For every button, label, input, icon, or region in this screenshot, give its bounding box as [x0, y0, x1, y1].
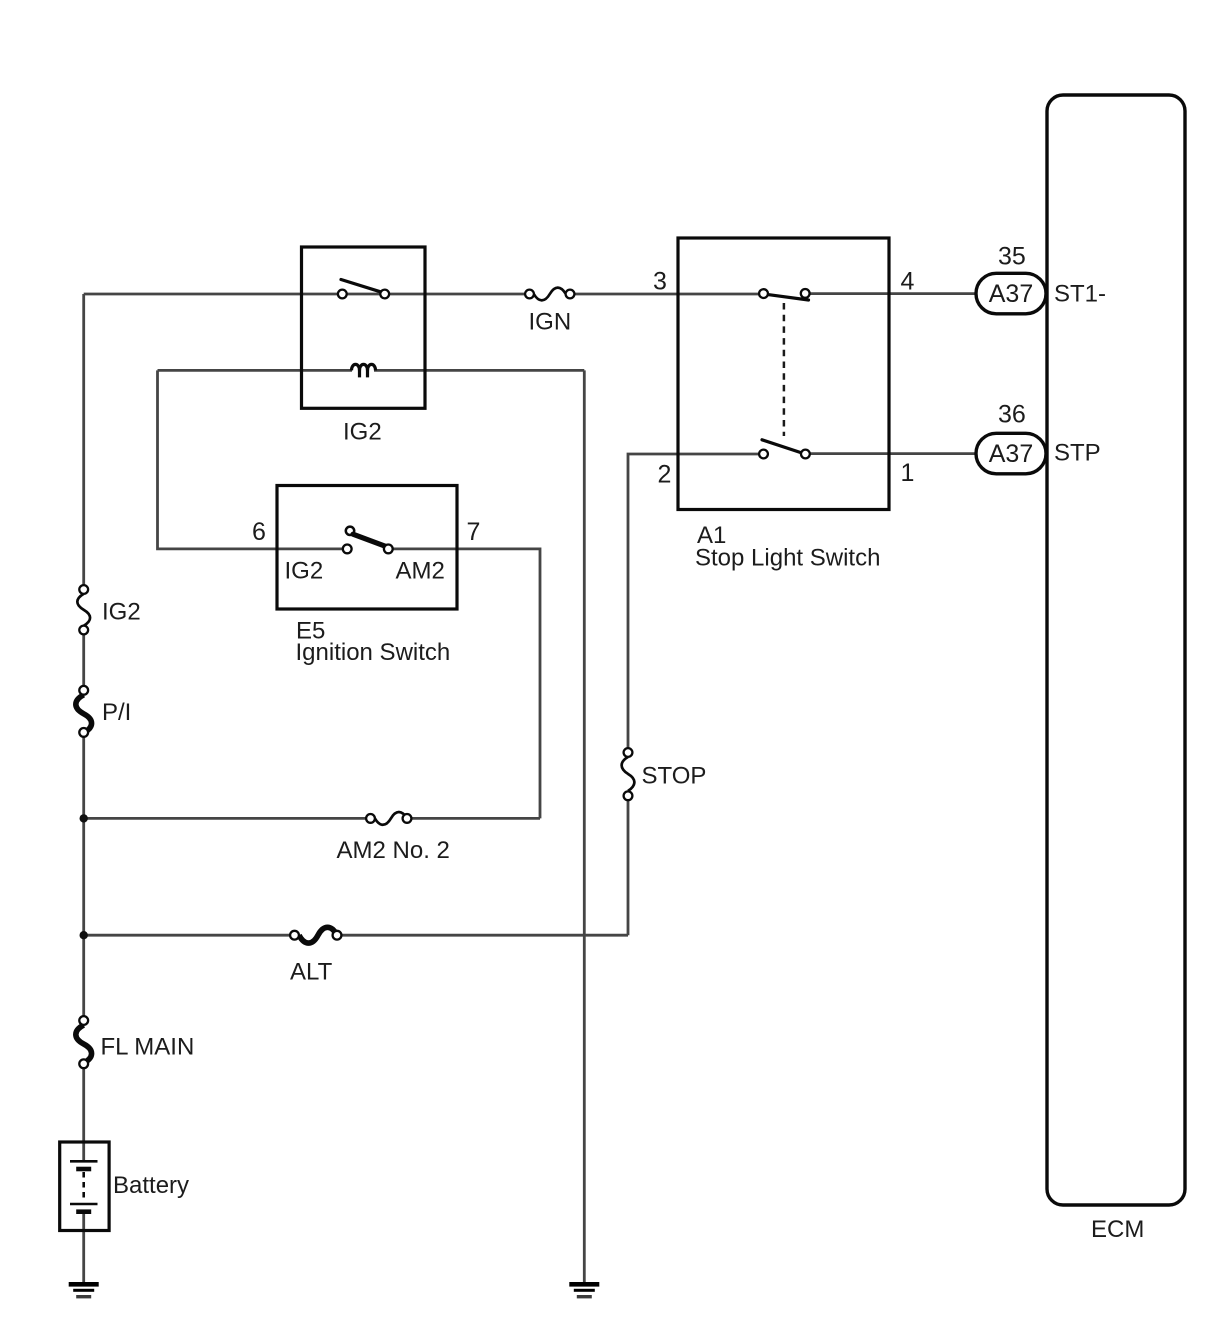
battery plate short thick top — [76, 1167, 91, 1172]
ECM box — [1047, 95, 1185, 1205]
svg-text:ALT: ALT — [290, 959, 333, 986]
ground at battery — [69, 1282, 99, 1298]
node junction at AM2 No.2 tap — [80, 814, 88, 822]
svg-text:P/I: P/I — [102, 699, 131, 726]
battery plate long bottom — [70, 1203, 98, 1206]
wire: STOP riser to A1 pin 2 — [627, 800, 630, 935]
fuse IG2 (left riser) — [77, 585, 140, 634]
svg-text:IG2: IG2 — [343, 419, 382, 446]
A1 bottom switch contact right — [801, 450, 810, 459]
svg-text:STOP: STOP — [642, 763, 707, 790]
battery dashed middle — [82, 1172, 85, 1200]
connector A37 pin 35 oval — [976, 273, 1046, 314]
wire: IGN fuse to A1 box pin 3 wire — [574, 293, 764, 296]
fusible link ALT — [290, 927, 341, 985]
svg-text:Ignition Switch: Ignition Switch — [296, 639, 451, 666]
A1 linkage dashed line — [783, 303, 786, 436]
wire: left vertical riser battery feed (segmented around fuses) — [82, 294, 85, 585]
relay IG2 switch contact left — [338, 290, 347, 299]
relay IG2 box — [302, 247, 426, 408]
wire: IG2 relay coil horizontal — [158, 369, 353, 372]
ignition switch E5 box — [277, 486, 457, 610]
svg-text:1: 1 — [901, 459, 915, 487]
svg-text:ST1-: ST1- — [1054, 281, 1106, 308]
fusible link FL MAIN — [76, 1016, 194, 1068]
svg-text:STP: STP — [1054, 440, 1101, 467]
fusible link P/I — [76, 686, 132, 737]
E5 key lever loop — [346, 527, 354, 535]
A1 bottom switch lever — [762, 440, 801, 453]
wire: A1 pin 1 to ECM A37 pin 36 — [805, 452, 978, 455]
wire: ALT horizontal — [84, 934, 291, 937]
wire: AM2 No.2 horizontal — [84, 817, 367, 820]
E5 switch contact right (AM2) — [384, 545, 393, 554]
svg-text:A37: A37 — [989, 280, 1033, 308]
svg-text:IG2: IG2 — [285, 558, 324, 585]
E5 switch contact left (IG2) — [343, 545, 352, 554]
fuse AM2 No. 2 — [337, 812, 450, 864]
battery plate long top — [70, 1160, 98, 1163]
relay IG2 coil — [352, 364, 376, 377]
relay IG2 switch contact right — [380, 290, 389, 299]
svg-text:6: 6 — [252, 518, 266, 546]
E5 key lever bar — [353, 534, 386, 546]
wire: E5 pin 7 to AM2 No.2 riser — [393, 549, 541, 819]
battery box — [60, 1142, 109, 1231]
svg-text:2: 2 — [658, 461, 672, 489]
svg-text:Battery: Battery — [113, 1172, 189, 1199]
svg-text:FL MAIN: FL MAIN — [101, 1034, 195, 1061]
wire: coil left lead down and over to E5 pin 6 — [158, 370, 343, 549]
svg-text:Stop Light Switch: Stop Light Switch — [695, 545, 880, 572]
svg-text:7: 7 — [467, 518, 481, 546]
node junction at ALT tap — [80, 931, 88, 939]
relay IG2 switch lever — [341, 280, 381, 292]
svg-text:IG2: IG2 — [102, 599, 141, 626]
wire: coil right lead down to ground — [583, 370, 586, 1282]
svg-text:35: 35 — [998, 243, 1026, 271]
ground at relay coil return — [569, 1282, 599, 1298]
A1 top switch lever — [768, 295, 809, 300]
fuse IGN — [525, 288, 574, 336]
svg-text:36: 36 — [998, 401, 1026, 429]
svg-text:ECM: ECM — [1091, 1216, 1144, 1243]
A1 top switch contact right — [801, 289, 810, 298]
stop light switch A1 box — [678, 238, 889, 510]
A1 bottom switch contact left — [759, 450, 768, 459]
battery plate short thick bottom — [76, 1209, 91, 1214]
svg-text:3: 3 — [653, 268, 667, 296]
svg-text:4: 4 — [901, 268, 915, 296]
fuse STOP — [622, 748, 707, 800]
wire: top feed from left riser to stop light switch pin 3 — [84, 293, 526, 296]
svg-text:AM2: AM2 — [396, 558, 445, 585]
svg-text:A37: A37 — [989, 440, 1033, 468]
svg-text:AM2 No. 2: AM2 No. 2 — [337, 837, 450, 864]
connector A37 pin 36 oval — [976, 433, 1046, 474]
A1 top switch contact left — [759, 289, 768, 298]
svg-text:IGN: IGN — [529, 309, 572, 336]
wire: A1 pin 4 to ECM A37 pin 35 — [805, 292, 978, 295]
